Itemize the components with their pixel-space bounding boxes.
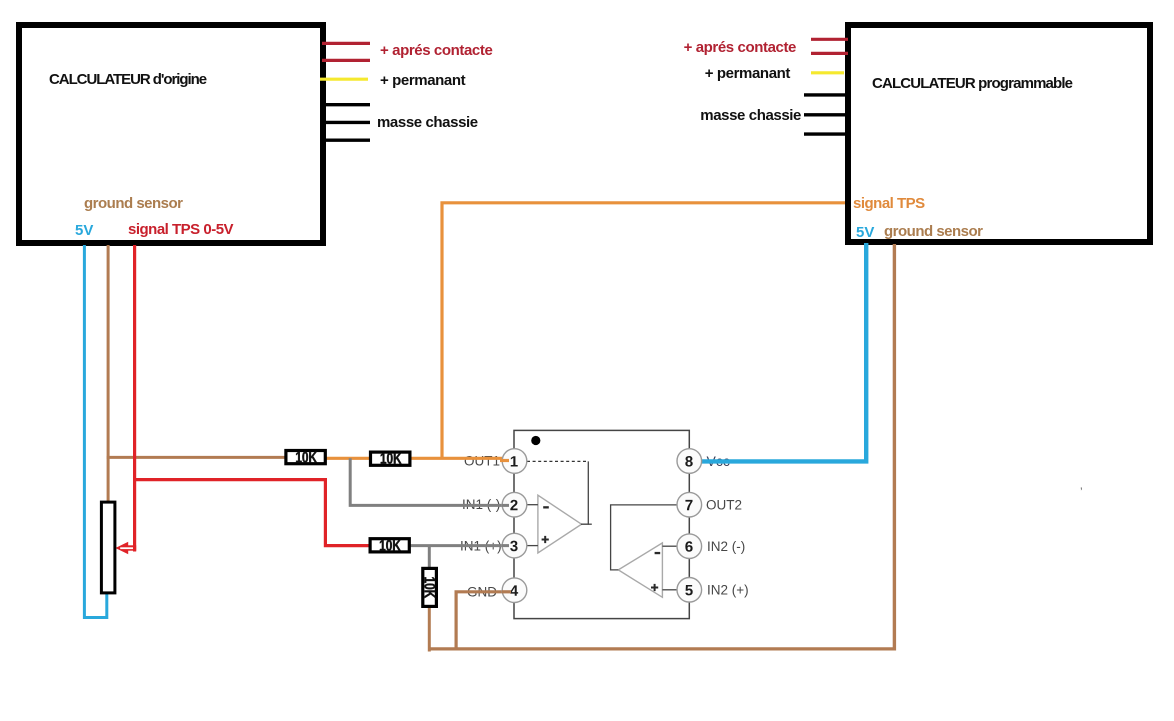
op-amp B plus input label (651, 584, 658, 591)
wire ground-sensor right (brown) (893, 244, 896, 651)
IC pin-1 orientation dot (531, 436, 540, 445)
wire gray stub into pin3 (502, 544, 509, 547)
wire gray stub into pin2 (502, 504, 509, 507)
wire ECU1 +permanant stub (yellow) (320, 78, 368, 81)
wire pin5 to op-amp B non-inverting input (662, 589, 677, 591)
svg-text:ground sensor: ground sensor (84, 195, 183, 212)
wire Vcc (cyan) pin8 to ECU2 5V (697, 243, 866, 461)
wire ECU1 +apres-contacte stub 1 (red) (322, 42, 370, 45)
wire ECU2 masse stub 1 (black) (804, 93, 848, 96)
wire red branch to potentiometer wiper (133, 478, 136, 552)
wire pin6 to op-amp B inverting input (662, 545, 677, 547)
svg-text:OUT2: OUT2 (706, 498, 742, 513)
wire ECU1 masse stub 3 (black) (322, 138, 370, 141)
svg-text:signal TPS 0-5V: signal TPS 0-5V (128, 221, 234, 238)
arrowhead red into potentiometer (115, 542, 128, 554)
svg-text:OUT1: OUT1 (464, 453, 500, 468)
svg-text:masse chassie: masse chassie (377, 114, 478, 131)
svg-text:ground sensor: ground sensor (884, 223, 983, 240)
pin 2 circle (502, 492, 527, 517)
resistor R2 10K (371, 452, 410, 465)
svg-text:signal TPS: signal TPS (853, 195, 925, 212)
wire ECU1 masse stub 1 (black) (322, 103, 370, 106)
svg-text:+ permanant: + permanant (380, 72, 466, 89)
wire orange between R1 and R2 (326, 457, 370, 460)
arrow red shaft into potentiometer (126, 545, 136, 550)
pin 4 circle (502, 578, 527, 603)
pin 6 circle (677, 534, 702, 559)
wire op-amp A output stub (588, 523, 592, 525)
svg-text:+ permanant: + permanant (705, 65, 791, 82)
svg-text:+ aprés contacte: + aprés contacte (684, 39, 796, 56)
arrowhead white core (120, 547, 133, 549)
wire ECU2 masse stub 2 (black) (804, 113, 848, 116)
box ECU1 CALCULATEUR d'origine (19, 25, 323, 243)
wire brown branch to R1 (107, 456, 286, 459)
wire op-amp B output to pin7 (611, 505, 677, 570)
wire brown bottom bus (429, 647, 896, 650)
wire gray R3 to pin3 IN1(+) (409, 544, 508, 547)
wire orange R2 to pin1 OUT1 (406, 457, 509, 460)
wire signal TPS (orange) from ECU2 to pin1 (442, 203, 845, 458)
wire ECU2 +apres-contacte stub 2 (red) (811, 52, 848, 55)
op-amp B triangle (618, 543, 662, 597)
pin 7 circle (677, 492, 702, 517)
wire 5V left (cyan) (84, 245, 106, 618)
op-amp A minus input label (543, 506, 549, 508)
wire orange stub into pin1 (500, 459, 509, 462)
svg-text:5V: 5V (75, 222, 93, 239)
box ECU2 CALCULATEUR programmable (848, 25, 1150, 242)
svg-text:CALCULATEUR d'origine: CALCULATEUR d'origine (49, 71, 207, 88)
wire gray node to pin2 IN1(-) (350, 458, 508, 505)
op-amp IC U1 body (514, 430, 689, 618)
wire op-amp A feedback dashed (527, 460, 588, 462)
svg-text:’: ’ (1080, 485, 1083, 499)
svg-text:5V: 5V (856, 224, 874, 241)
resistor R3 10K (370, 539, 409, 552)
svg-text:IN2 (-): IN2 (-) (707, 539, 745, 554)
op-amp A triangle (538, 495, 582, 553)
pin 5 circle (677, 578, 702, 603)
op-amp A plus input label (542, 536, 549, 543)
wire op-amp A feedback vertical (581, 461, 588, 524)
pin 8 circle (677, 449, 702, 474)
resistor R4 10K vertical (423, 568, 437, 606)
wire ground-sensor left (brown) (107, 245, 110, 501)
wire brown below R4 (428, 607, 431, 652)
wire brown stub into pin4 (502, 590, 511, 593)
svg-text:masse chassie: masse chassie (700, 107, 801, 124)
wire signal TPS 0-5V (red) (135, 245, 369, 546)
svg-text:IN2 (+): IN2 (+) (707, 583, 749, 598)
wire ECU2 masse stub 3 (black) (804, 132, 848, 135)
wire pin3 to op-amp A non-inverting input (527, 545, 538, 547)
wire pin2 to op-amp A inverting input (527, 504, 538, 506)
wire brown from pin4 GND (456, 592, 511, 651)
op-amp B minus input label (655, 552, 661, 554)
svg-text:CALCULATEUR programmable: CALCULATEUR programmable (872, 75, 1073, 92)
pin 1 circle (502, 449, 527, 474)
pin 3 circle (502, 533, 527, 558)
wire ECU1 masse stub 2 (black) (322, 121, 370, 124)
wire ECU1 +apres-contacte stub 2 (red) (322, 59, 370, 62)
wire ECU2 +permanant stub (yellow) (811, 71, 844, 74)
potentiometer P1 (101, 502, 115, 593)
wire ECU2 +apres-contacte stub 1 (red) (811, 38, 848, 41)
wire gray stub to R4 top (428, 546, 431, 567)
svg-text:+ aprés contacte: + aprés contacte (380, 42, 492, 59)
resistor R1 10K (286, 451, 325, 464)
